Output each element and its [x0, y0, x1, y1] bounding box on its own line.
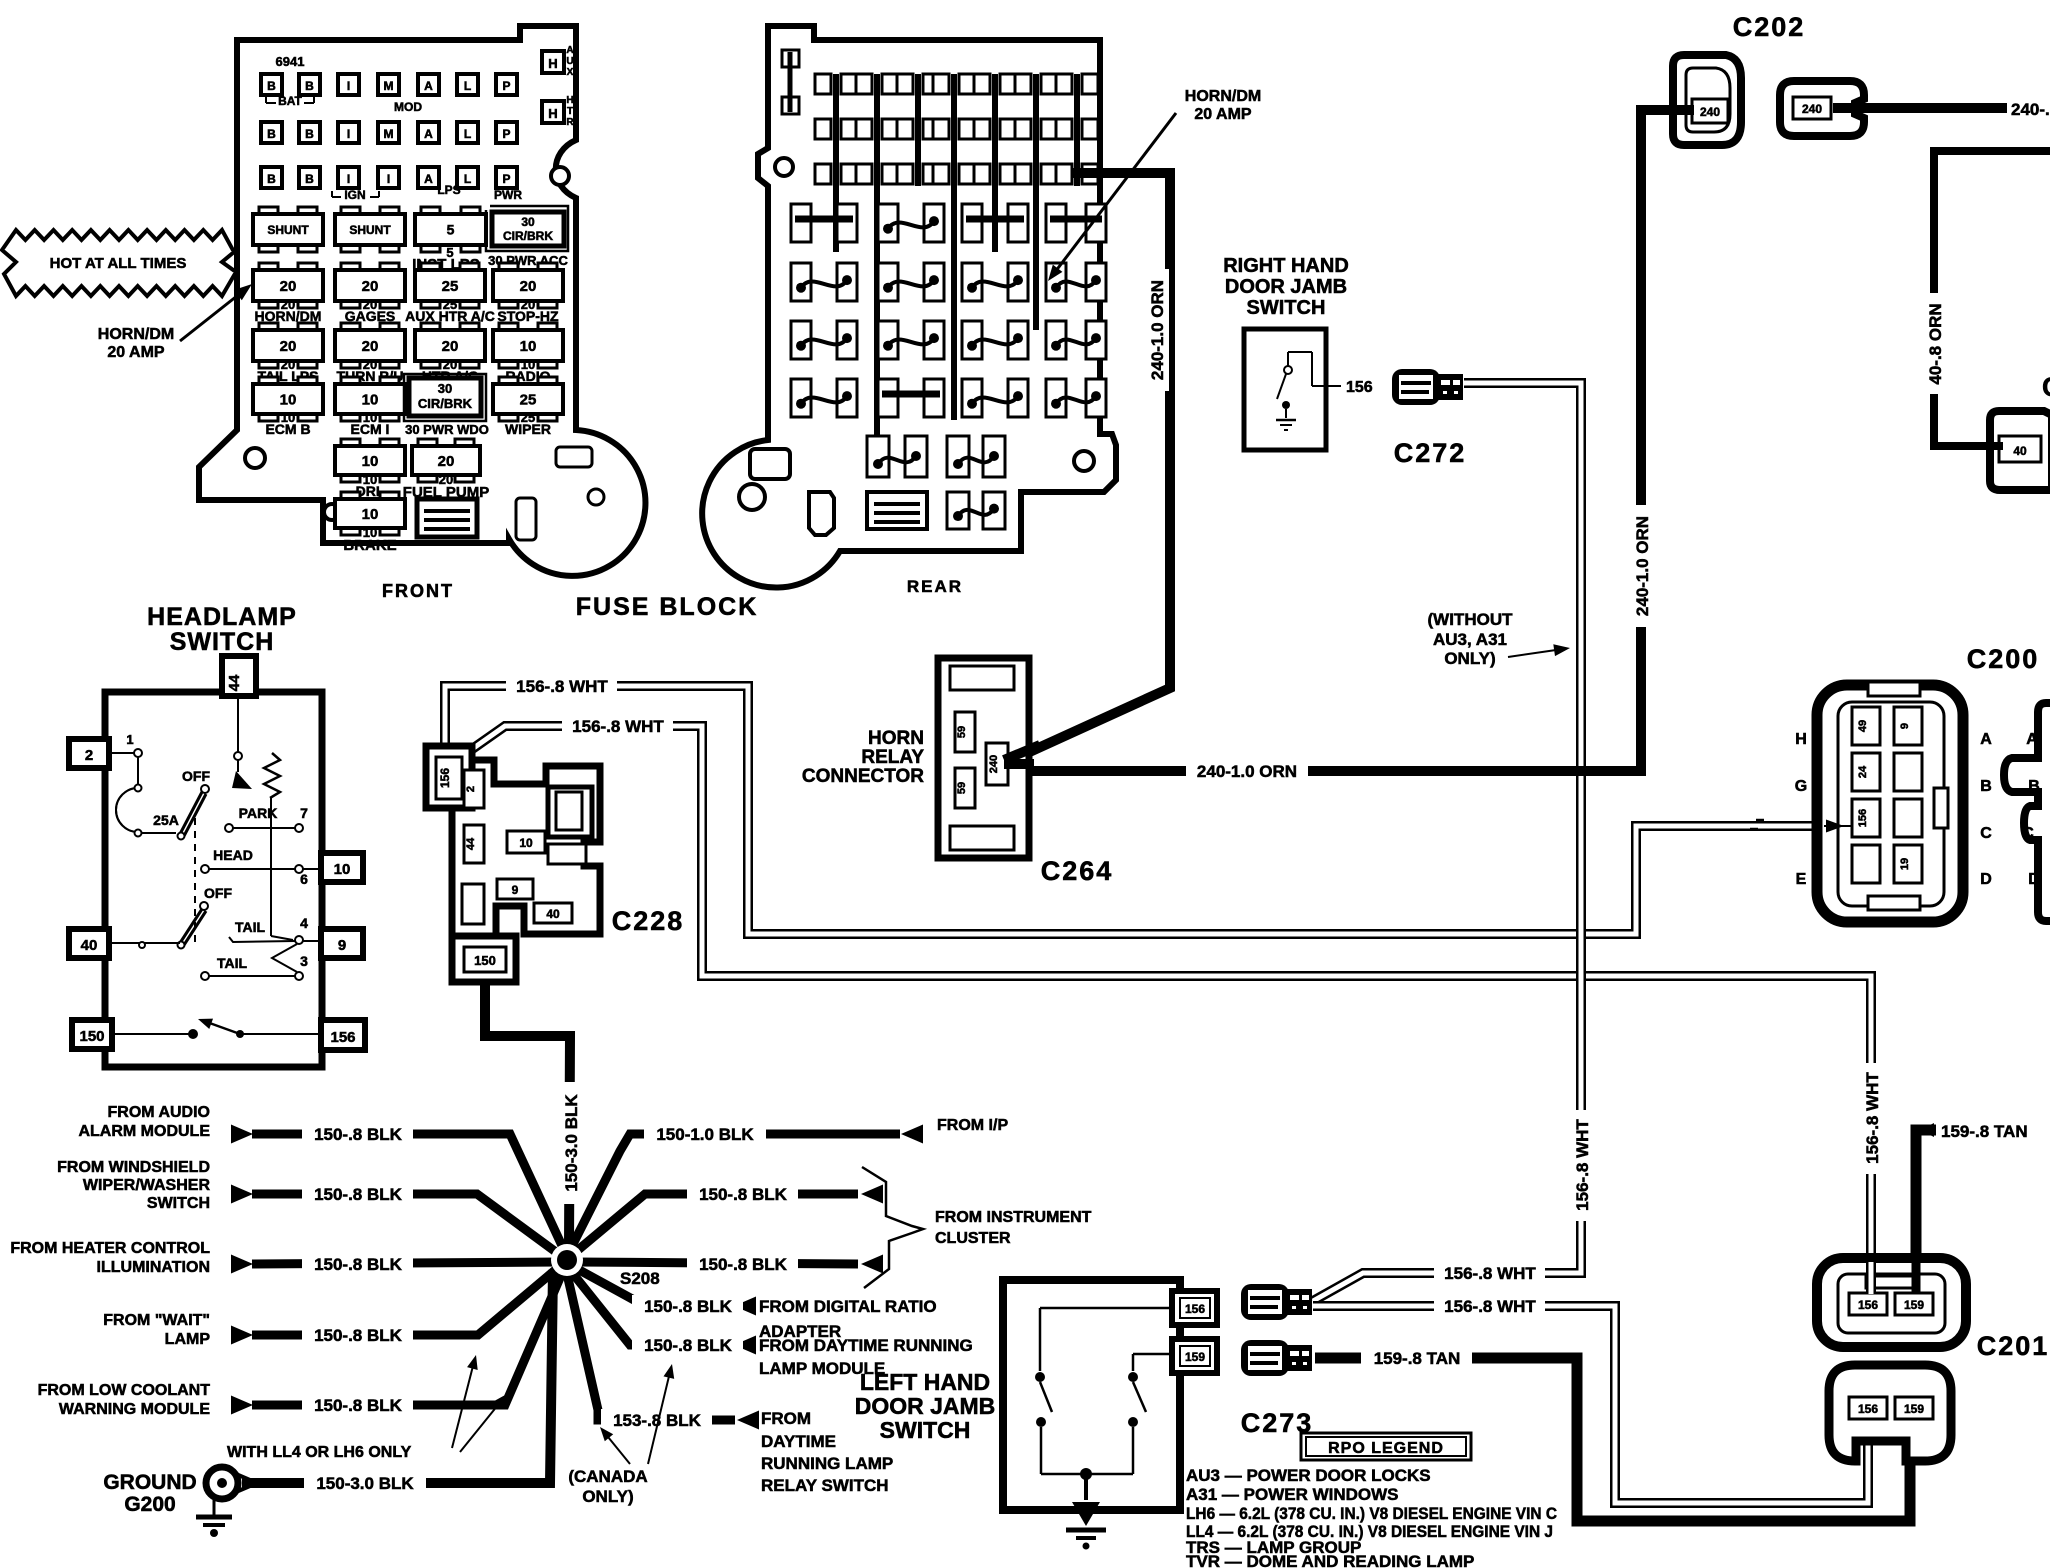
svg-text:20: 20	[362, 278, 379, 295]
svg-text:ONLY): ONLY)	[1444, 649, 1495, 668]
svg-text:240-1.0 ORN: 240-1.0 ORN	[1148, 280, 1167, 380]
rear connector group row2 col1	[791, 263, 811, 301]
svg-text:FROM: FROM	[761, 1409, 811, 1428]
fuse 10 ECM B	[259, 377, 278, 386]
pin square row2 col6 L	[457, 122, 478, 143]
headlamp switch box	[105, 692, 322, 1067]
svg-text:150-.8 BLK: 150-.8 BLK	[699, 1185, 788, 1204]
svg-text:CONNECTOR: CONNECTOR	[802, 766, 924, 787]
leader line into rear block	[1052, 113, 1176, 276]
left arrows	[231, 1125, 253, 1144]
rear connector group row3 col3	[962, 321, 982, 359]
C264 pin 59 upper	[955, 712, 975, 752]
svg-text:10: 10	[280, 391, 297, 408]
pin square row1 col4 M	[378, 74, 399, 95]
pin square row1 col2 B	[299, 74, 320, 95]
svg-text:(WITHOUT: (WITHOUT	[1428, 610, 1514, 629]
svg-text:AU3, A31: AU3, A31	[1433, 630, 1507, 649]
wire stubs into C264 pin 240	[1004, 759, 1034, 769]
wire stub into C201 upper pin 159	[1912, 1258, 1921, 1294]
pin square row1 col7 P	[496, 74, 517, 95]
wire label 156-.8 WHT top	[506, 675, 617, 698]
svg-text:25: 25	[520, 391, 537, 408]
C273 switch box	[1003, 1280, 1180, 1510]
svg-text:PWR: PWR	[494, 188, 522, 202]
pin square row2 col5 A	[418, 122, 439, 143]
svg-text:10: 10	[362, 453, 379, 470]
fuse 20 HORN/DM	[259, 263, 278, 272]
svg-text:240-1.0 ORN: 240-1.0 ORN	[1197, 762, 1297, 781]
svg-text:FROM INSTRUMENT: FROM INSTRUMENT	[935, 1209, 1092, 1226]
svg-text:156-.8 WHT: 156-.8 WHT	[1863, 1072, 1882, 1164]
svg-text:MOD: MOD	[394, 100, 422, 114]
svg-text:A: A	[2026, 731, 2038, 748]
svg-text:RELAY: RELAY	[861, 747, 924, 768]
svg-text:5: 5	[447, 222, 455, 238]
svg-text:ECM I: ECM I	[351, 421, 390, 437]
door jamb terminal A	[1241, 1284, 1289, 1320]
svg-text:C200: C200	[1967, 644, 2040, 674]
svg-text:TAIL: TAIL	[235, 919, 266, 935]
wire 44 down	[237, 696, 239, 752]
svg-text:GROUND: GROUND	[103, 1471, 196, 1494]
svg-text:150-.8 BLK: 150-.8 BLK	[314, 1185, 403, 1204]
front block hole 2	[324, 504, 340, 520]
svg-text:FROM I/P: FROM I/P	[937, 1117, 1008, 1134]
front block hole 3	[551, 167, 569, 185]
headlamp switch tab 40	[69, 929, 109, 958]
wire label 156-.8 WHT fanout lower	[1434, 1295, 1545, 1318]
pin square row2 col7 P	[496, 122, 517, 143]
svg-text:RPO LEGEND: RPO LEGEND	[1328, 1440, 1444, 1457]
C264 pin 59 lower	[955, 768, 975, 808]
rear block lobe slot	[750, 449, 790, 479]
svg-text:WARNING MODULE: WARNING MODULE	[59, 1401, 210, 1418]
wire tab2 to node 1	[109, 752, 136, 754]
svg-text:B: B	[305, 79, 314, 93]
svg-text:20: 20	[438, 453, 455, 470]
svg-text:HORN: HORN	[868, 728, 924, 749]
svg-text:240: 240	[1802, 102, 1822, 116]
svg-text:CIR/BRK: CIR/BRK	[418, 396, 473, 411]
wire 159-.8 TAN top right	[1916, 1130, 1936, 1292]
rear connector group row3 col1	[791, 321, 811, 359]
svg-text:IGN: IGN	[344, 188, 365, 202]
splice rays left	[252, 1134, 564, 1250]
wire label 40-.8 ORN vertical	[1924, 293, 1947, 394]
svg-text:30: 30	[521, 215, 535, 229]
svg-text:G: G	[1795, 778, 1807, 795]
svg-text:I: I	[347, 172, 350, 186]
svg-text:G200: G200	[124, 1493, 175, 1516]
svg-text:1: 1	[126, 732, 133, 747]
svg-text:156-.8 WHT: 156-.8 WHT	[1444, 1297, 1536, 1316]
fuse 20 FUEL PUMP	[418, 439, 437, 448]
svg-text:24: 24	[1857, 765, 1869, 778]
rear fuse link element	[867, 492, 927, 529]
svg-text:20: 20	[362, 338, 379, 355]
svg-text:C: C	[2042, 372, 2050, 402]
svg-text:10: 10	[519, 836, 533, 850]
C273 tab 159	[1172, 1339, 1217, 1373]
C201 lower pin 159	[1895, 1397, 1933, 1419]
C200 pin 49	[1852, 707, 1880, 745]
svg-text:44: 44	[226, 674, 243, 691]
fuse 20 GAGES	[341, 263, 360, 272]
instrument cluster brace	[862, 1167, 923, 1288]
svg-text:B: B	[305, 172, 314, 186]
C273 internals	[1040, 1307, 1172, 1310]
fuse 20 TURN B/U	[341, 323, 360, 332]
C200 pin 19	[1894, 845, 1922, 883]
svg-text:20 AMP: 20 AMP	[107, 344, 165, 361]
svg-text:SWITCH: SWITCH	[1247, 297, 1326, 319]
right arrows	[901, 1125, 923, 1144]
wire tab40	[109, 942, 180, 944]
leader arrow to HORN/DM fuse	[180, 292, 242, 341]
svg-text:150: 150	[474, 953, 496, 968]
wire arrow into C200 pin 156	[1824, 825, 1852, 827]
pin square row2 col1 B	[261, 122, 282, 143]
fuse 10 BRAKE	[341, 492, 360, 501]
svg-text:240: 240	[1700, 105, 1720, 119]
svg-text:FROM LOW COOLANT: FROM LOW COOLANT	[38, 1382, 211, 1399]
svg-text:LAMP: LAMP	[165, 1331, 211, 1348]
RPO LEGEND box	[1301, 1433, 1471, 1460]
dashed detent line	[194, 818, 196, 942]
fuse 30 CIR/BRK top	[486, 206, 568, 251]
wire 159-.8 TAN from terminal B to C201	[1315, 1358, 1910, 1521]
fuse 10 DRL	[341, 439, 360, 448]
C202 left pin 240	[1692, 99, 1728, 123]
svg-text:20: 20	[442, 338, 459, 355]
svg-text:159: 159	[1185, 1350, 1205, 1364]
rear block lobe hole	[739, 484, 765, 510]
pin square row2 col4 M	[378, 122, 399, 143]
svg-text:25A: 25A	[153, 812, 179, 828]
C200 pin 9	[1894, 707, 1922, 745]
svg-text:44: 44	[465, 837, 477, 850]
rear connector group row1 col2	[878, 204, 898, 242]
rear connector group row2 col2	[878, 263, 898, 301]
svg-text:H: H	[566, 95, 573, 106]
svg-text:ECM B: ECM B	[265, 421, 310, 437]
pin square row3 col5 A	[418, 167, 439, 188]
C201 lower pin 156	[1849, 1397, 1887, 1419]
wire node1 down	[137, 757, 139, 786]
rear block lobe slot 2	[809, 492, 834, 535]
pin square row3 col4 I	[378, 167, 399, 188]
C200 pin blank	[1894, 753, 1922, 791]
svg-text:3: 3	[300, 953, 308, 969]
svg-text:159: 159	[1904, 1298, 1924, 1312]
svg-text:C228: C228	[612, 906, 685, 936]
svg-text:FRONT: FRONT	[382, 581, 454, 601]
svg-text:C: C	[1980, 825, 1992, 842]
svg-text:WIPER/WASHER: WIPER/WASHER	[83, 1177, 211, 1194]
pin square row3 col3 I	[338, 167, 359, 188]
right door jamb switch box	[1244, 329, 1326, 450]
svg-text:159-.8 TAN: 159-.8 TAN	[1374, 1349, 1461, 1368]
wire 156-.8 WHT door jamb terminal to C201 lower	[1313, 1306, 1868, 1503]
wire from C202 right pin	[1833, 103, 1872, 113]
svg-text:49: 49	[1857, 720, 1869, 732]
svg-text:150-.8 BLK: 150-.8 BLK	[644, 1297, 733, 1316]
rear connector group row1 col3	[962, 204, 982, 242]
fuse SHUNT 2	[341, 207, 360, 216]
wire label 156-.8 WHT vertical right	[1571, 1110, 1594, 1221]
svg-text:19: 19	[1899, 858, 1911, 870]
svg-text:150-.8 BLK: 150-.8 BLK	[314, 1255, 403, 1274]
fuse 25 AUX HTR A/C	[421, 263, 440, 272]
C228 pin 44	[464, 825, 484, 863]
front block lobe slot 1	[556, 447, 592, 467]
rear bus column 2	[874, 74, 880, 466]
C264 pin 240	[986, 743, 1008, 785]
svg-text:X: X	[567, 67, 574, 78]
wire stub into C201 upper pin 156	[1866, 1262, 1876, 1294]
svg-text:150-1.0 BLK: 150-1.0 BLK	[656, 1125, 754, 1144]
rear connector group row3 col4	[1046, 321, 1066, 359]
svg-text:REAR: REAR	[907, 577, 963, 596]
rear connector group row2 col4	[1046, 263, 1066, 301]
svg-text:A: A	[424, 127, 433, 141]
front block mounting hole	[245, 448, 265, 468]
C200 bottom notch	[1868, 896, 1920, 910]
arrows canada	[604, 1432, 630, 1464]
svg-text:RIGHT HAND: RIGHT HAND	[1223, 255, 1349, 277]
C228 pin 2	[464, 770, 484, 808]
rear connector group row2 col3	[962, 263, 982, 301]
front block lobe slot 2	[516, 498, 536, 540]
svg-text:SHUNT: SHUNT	[349, 223, 391, 237]
resistor	[264, 753, 280, 798]
rear bus column 1	[833, 74, 839, 252]
rear connector group row4 col3	[962, 379, 982, 417]
fuse 20 STOP-HZ	[499, 263, 518, 272]
rear bottom connector group 2	[947, 436, 969, 477]
svg-text:LH6 — 6.2L (378 CU. IN.) V8 DI: LH6 — 6.2L (378 CU. IN.) V8 DIESEL ENGIN…	[1186, 1505, 1557, 1523]
svg-text:P: P	[502, 172, 510, 186]
wire label 150-3.0 BLK vertical	[560, 1082, 583, 1204]
svg-text:40: 40	[546, 907, 560, 921]
svg-text:L: L	[464, 127, 471, 141]
fuse 30 CIR/BRK lower	[404, 374, 486, 421]
fuse 20 HTR A/C	[421, 323, 440, 332]
headlamp switch tab 44	[222, 656, 256, 696]
svg-text:150-.8 BLK: 150-.8 BLK	[699, 1255, 788, 1274]
svg-text:B: B	[267, 79, 276, 93]
svg-text:TAIL: TAIL	[217, 955, 248, 971]
svg-text:156: 156	[1858, 1402, 1878, 1416]
rear block mounting hole right	[1074, 451, 1094, 471]
svg-text:TVR — DOME AND READING LAMP: TVR — DOME AND READING LAMP	[1186, 1552, 1474, 1568]
fuse 10 RADIO	[499, 323, 518, 332]
pin square row3 col7 P	[496, 167, 517, 188]
wire label 156-.8 WHT to C201	[1861, 1063, 1884, 1174]
splice rays right	[570, 1134, 900, 1250]
svg-text:FROM DIGITAL RATIO: FROM DIGITAL RATIO	[759, 1297, 937, 1316]
svg-text:150: 150	[79, 1028, 104, 1045]
svg-text:S208: S208	[620, 1269, 660, 1288]
bottom switch 150-156	[112, 1033, 190, 1035]
svg-text:40-.8 ORN: 40-.8 ORN	[1926, 303, 1945, 384]
svg-text:156: 156	[330, 1029, 355, 1046]
svg-text:R: R	[566, 117, 574, 128]
C201 upper connector	[1817, 1258, 1966, 1347]
svg-text:A31 — POWER WINDOWS: A31 — POWER WINDOWS	[1186, 1485, 1399, 1504]
rear bus column 6	[1033, 74, 1039, 330]
pin square row1 col3 I	[338, 74, 359, 95]
rear connector group row1 col4	[1046, 204, 1066, 242]
arrows LL4 LH6	[452, 1362, 474, 1448]
pin 40 right edge connector	[1999, 436, 2041, 462]
svg-text:DOOR JAMB: DOOR JAMB	[1225, 276, 1347, 298]
C200 pin blank	[1894, 799, 1922, 837]
svg-text:SWITCH: SWITCH	[880, 1417, 971, 1443]
arrow to 156 wire	[1508, 650, 1556, 657]
wire label 240-1.0 ORN vertical right	[1631, 505, 1654, 627]
headlamp switch tab 2	[69, 739, 109, 768]
C200 top notch	[1868, 682, 1920, 696]
headlamp switch tab 10	[321, 853, 363, 882]
rear top-left fuse element	[782, 50, 799, 67]
svg-text:SWITCH: SWITCH	[147, 1195, 210, 1212]
rear bus column 3	[915, 74, 921, 186]
svg-text:150-.8 BLK: 150-.8 BLK	[314, 1125, 403, 1144]
C200 side notch	[1934, 788, 1948, 828]
svg-text:H: H	[1795, 731, 1807, 748]
svg-text:156: 156	[438, 768, 452, 788]
svg-text:DAYTIME: DAYTIME	[761, 1432, 836, 1451]
svg-text:B: B	[267, 172, 276, 186]
C272 terminal connector	[1392, 369, 1440, 405]
connector C228 body	[452, 760, 600, 938]
right door jamb switch internals	[1287, 352, 1289, 366]
svg-text:C201: C201	[1977, 1331, 2050, 1361]
svg-text:L: L	[464, 172, 471, 186]
front block lobe hole	[588, 489, 604, 505]
door jamb terminal B	[1241, 1340, 1289, 1376]
C202 left connector	[1673, 55, 1741, 145]
svg-text:156-.8 WHT: 156-.8 WHT	[1444, 1264, 1536, 1283]
rear bottom connector group 3	[947, 492, 969, 529]
svg-text:ALARM MODULE: ALARM MODULE	[78, 1123, 210, 1140]
svg-text:I: I	[387, 172, 390, 186]
svg-text:150-3.0 BLK: 150-3.0 BLK	[562, 1094, 581, 1192]
svg-text:156-.8 WHT: 156-.8 WHT	[516, 677, 608, 696]
C228 pin blank	[462, 884, 484, 924]
fuse 20 TAIL LPS	[259, 323, 278, 332]
svg-text:RELAY SWITCH: RELAY SWITCH	[761, 1476, 889, 1495]
svg-text:T: T	[567, 106, 573, 117]
svg-text:156-.8 WHT: 156-.8 WHT	[572, 717, 664, 736]
svg-text:25: 25	[442, 278, 459, 295]
svg-text:ILLUMINATION: ILLUMINATION	[97, 1259, 210, 1276]
svg-text:156: 156	[1858, 1298, 1878, 1312]
svg-text:240-.: 240-.	[2011, 100, 2050, 119]
svg-text:C: C	[2022, 825, 2034, 842]
pin square row2 col3 I	[338, 122, 359, 143]
svg-text:10: 10	[334, 861, 351, 878]
svg-text:30: 30	[438, 381, 452, 396]
svg-text:FROM DAYTIME RUNNING: FROM DAYTIME RUNNING	[759, 1336, 973, 1355]
wire 40-.8 ORN	[1934, 151, 2050, 446]
svg-text:20: 20	[280, 338, 297, 355]
fuse 25 WIPER	[499, 377, 518, 386]
svg-text:20 AMP: 20 AMP	[1194, 106, 1252, 123]
svg-text:CIR/BRK: CIR/BRK	[503, 229, 553, 243]
svg-text:RUNNING LAMP: RUNNING LAMP	[761, 1454, 893, 1473]
rear bus column 7	[1074, 74, 1080, 186]
svg-text:59: 59	[956, 782, 968, 794]
wire into C202 left pin	[1647, 105, 1694, 115]
fuse SHUNT 1	[259, 207, 278, 216]
svg-text:DOOR JAMB: DOOR JAMB	[855, 1393, 996, 1419]
rear bus column 5	[992, 74, 998, 252]
svg-text:150-3.0 BLK: 150-3.0 BLK	[316, 1474, 414, 1493]
wire label 240-1.0 ORN vertical left	[1146, 269, 1169, 391]
wire 156-.8 WHT from C228 to C200	[445, 686, 1824, 934]
fuse link element front	[417, 499, 477, 537]
rear connector group row4 col2	[878, 379, 898, 417]
svg-text:OFF: OFF	[204, 885, 232, 901]
pin square row1 col1 B	[261, 74, 282, 95]
wire label 240-1.0 ORN horizontal	[1186, 760, 1308, 783]
C202 right connector	[1780, 81, 1864, 136]
C228 big pin top right	[548, 787, 592, 837]
svg-text:10: 10	[520, 338, 537, 355]
svg-text:LPS: LPS	[437, 183, 460, 197]
svg-text:30 PWR WDO: 30 PWR WDO	[405, 422, 489, 437]
svg-text:59: 59	[956, 726, 968, 738]
wire label 156-.8 WHT fanout upper	[1434, 1262, 1545, 1285]
wire label 159-.8 TAN	[1361, 1347, 1472, 1370]
pin square row3 col2 B	[299, 167, 320, 188]
C200 pin blank	[1852, 845, 1880, 883]
svg-text:B: B	[305, 127, 314, 141]
svg-text:4: 4	[300, 915, 308, 931]
leader 156	[1328, 385, 1341, 387]
wire label ground	[304, 1472, 426, 1495]
svg-text:159: 159	[1904, 1402, 1924, 1416]
wire 150-3.0 BLK from C228 to splice	[485, 984, 570, 1248]
svg-text:M: M	[384, 127, 394, 141]
svg-text:156: 156	[1857, 809, 1869, 827]
svg-text:B: B	[1980, 778, 1992, 795]
C201 lower connector	[1829, 1365, 1951, 1461]
svg-text:150-.8 BLK: 150-.8 BLK	[314, 1326, 403, 1345]
svg-text:9: 9	[1899, 723, 1911, 729]
C228 pin 150 tab	[452, 936, 516, 982]
svg-text:156: 156	[1185, 1302, 1205, 1316]
wire into pin 40	[1988, 442, 2003, 450]
svg-text:D: D	[2028, 871, 2040, 888]
pin square row1 col6 L	[457, 74, 478, 95]
svg-text:U: U	[566, 56, 573, 67]
C201 upper pin 159	[1895, 1293, 1933, 1315]
svg-text:D: D	[1980, 871, 1992, 888]
svg-text:159-.8 TAN: 159-.8 TAN	[1941, 1122, 2028, 1141]
rear connector group row4 col4	[1046, 379, 1066, 417]
connector C at right edge	[1990, 411, 2050, 490]
splice ray ground	[242, 1270, 553, 1483]
pin H AUX	[542, 51, 564, 73]
svg-text:20: 20	[280, 278, 297, 295]
headlamp switch tab 9	[321, 929, 363, 958]
svg-text:150-.8 BLK: 150-.8 BLK	[314, 1396, 403, 1415]
svg-text:AU3 — POWER DOOR LOCKS: AU3 — POWER DOOR LOCKS	[1186, 1466, 1431, 1485]
